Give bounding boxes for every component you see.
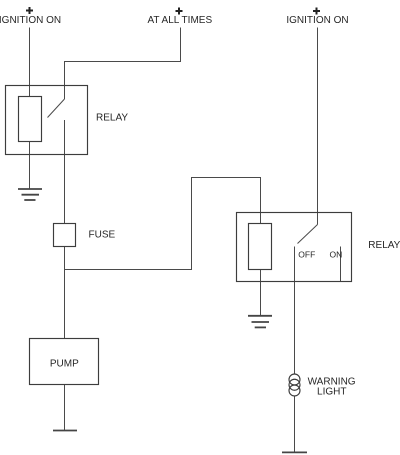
svg-text:RELAY: RELAY [368, 240, 400, 251]
svg-text:AT ALL TIMES: AT ALL TIMES [147, 15, 212, 26]
svg-text:ON: ON [330, 250, 343, 260]
svg-text:FUSE: FUSE [89, 230, 116, 241]
svg-text:IGNITION ON: IGNITION ON [0, 15, 61, 26]
svg-text:PUMP: PUMP [50, 359, 79, 370]
svg-text:RELAY: RELAY [96, 113, 128, 124]
svg-text:IGNITION ON: IGNITION ON [286, 15, 348, 26]
svg-text:LIGHT: LIGHT [317, 387, 346, 398]
svg-text:OFF: OFF [298, 250, 315, 260]
